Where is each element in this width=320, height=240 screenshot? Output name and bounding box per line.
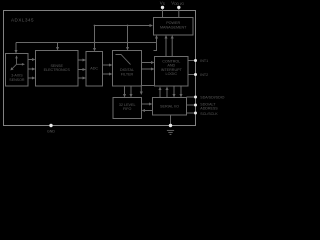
wire control down to fifo — [140, 86, 155, 96]
svg-text:SENSOR: SENSOR — [9, 78, 25, 82]
wire serial to SDO pin — [187, 104, 195, 106]
wire main power rail — [16, 42, 157, 44]
wire upper power feed into power management — [94, 24, 153, 27]
svg-text:FILTER: FILTER — [121, 72, 134, 76]
svg-text:ADC: ADC — [90, 66, 98, 70]
pin ground (serial) — [169, 124, 172, 127]
wire sensor to sense y — [28, 68, 36, 71]
axes symbol inside sensor — [10, 55, 25, 70]
pin SCL/SCLK — [194, 112, 197, 115]
wire serial up to control 2 — [166, 87, 169, 98]
svg-text:ADDRESS: ADDRESS — [200, 106, 218, 110]
pin VS — [161, 6, 164, 9]
svg-text:FIFO: FIFO — [123, 107, 132, 111]
svg-text:SCL/SCLK: SCL/SCLK — [200, 112, 218, 116]
block SERIAL I/O — [153, 98, 187, 116]
block SENSE ELECTRONICS — [36, 51, 79, 87]
wire filter down to fifo 2 — [130, 86, 133, 98]
svg-text:VS: VS — [160, 0, 165, 6]
block CONTROL AND INTERRUPT LOGIC — [155, 57, 189, 87]
wire sensor to sense x — [28, 58, 36, 61]
svg-text:INT2: INT2 — [200, 73, 208, 77]
wire control logic up to power management arrow 2 — [171, 35, 174, 57]
svg-text:ADXL345: ADXL345 — [11, 18, 34, 23]
wire rail up into power management — [155, 35, 158, 43]
wire serial io to fifo — [142, 109, 153, 112]
svg-text:ELECTRONICS: ELECTRONICS — [44, 68, 71, 72]
wire VDD I/O to power management — [178, 9, 180, 18]
block FIFO 32 LEVEL — [113, 98, 142, 119]
wire rail down into 3-axis sensor — [15, 43, 18, 54]
wire rail stub down toward control logic — [154, 43, 157, 51]
wire serial to SCL pin — [187, 112, 195, 114]
svg-text:SDA/SDI/SDIO: SDA/SDI/SDIO — [200, 96, 224, 100]
block U-PM POWER MANAGEMENT — [154, 18, 194, 36]
pin GND — [49, 124, 52, 127]
wire power feed down to digital filter — [126, 26, 129, 51]
wire VS to power management — [162, 9, 164, 18]
ground symbol — [167, 130, 174, 134]
wire serial io down to ground — [170, 115, 172, 125]
wire filter to control 2 — [142, 68, 155, 71]
wire filter down to fifo 1 — [123, 86, 126, 98]
block ADC — [86, 52, 103, 87]
wire filter to control 1 — [142, 61, 155, 64]
pin SDA/SDI/SDIO — [194, 96, 197, 99]
wire control logic up to power management arrow 1 — [165, 35, 168, 57]
pin INT2 — [194, 73, 197, 76]
wire serial to SDA pin — [187, 96, 195, 98]
svg-text:MANAGEMENT: MANAGEMENT — [160, 26, 187, 30]
svg-text:INT1: INT1 — [200, 59, 208, 63]
svg-text:LOGIC: LOGIC — [166, 72, 178, 76]
block DIGITAL FILTER — [113, 51, 142, 87]
wire power feed down to ADC — [93, 26, 96, 52]
wire sense to adc z — [78, 77, 86, 80]
wire control down to serial 2 — [180, 87, 183, 98]
svg-text:SERIAL I/O: SERIAL I/O — [160, 105, 179, 109]
pin INT1 — [194, 59, 197, 62]
wire rail down into sense electronics — [56, 43, 59, 51]
wire sensor to sense z — [28, 77, 36, 80]
wire sense to adc y — [78, 68, 86, 71]
svg-text:GND: GND — [47, 130, 55, 134]
outer boundary — [4, 11, 196, 126]
wire adc to filter 2 — [103, 73, 113, 76]
wire sense to adc x — [78, 59, 86, 62]
pin SDO/ALT ADDRESS — [194, 104, 197, 107]
block 3-AXIS SENSOR — [6, 54, 29, 87]
wire serial up to control 1 — [159, 87, 162, 98]
wire fifo to serial io — [142, 103, 153, 106]
svg-text:VDD I/O: VDD I/O — [171, 0, 184, 6]
pin VDD I/O — [177, 6, 180, 9]
wire adc to filter 1 — [103, 64, 113, 67]
wire control down to serial 1 — [173, 87, 176, 98]
wire control to INT2 — [188, 74, 194, 76]
wire control to INT1 — [188, 60, 194, 62]
